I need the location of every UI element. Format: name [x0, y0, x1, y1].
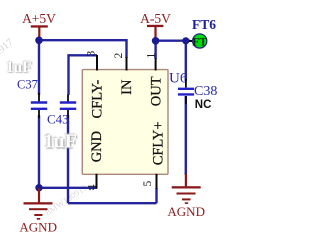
- svg-text:A-5V: A-5V: [140, 11, 171, 26]
- wire smudge junction near pin4: [88, 187, 93, 191]
- wire pin5 rise: [155, 188, 157, 203]
- power symbol A-5V: [140, 11, 171, 40]
- svg-text:C38: C38: [194, 84, 217, 99]
- svg-text:OUT: OUT: [149, 76, 165, 106]
- svg-text:1uF: 1uF: [44, 130, 77, 152]
- svg-text:AGND: AGND: [167, 204, 205, 219]
- pin 2 stub: [126, 57, 128, 71]
- pin 1 stub: [155, 58, 157, 71]
- wire top rail left: [39, 39, 127, 41]
- wire pin1 drop: [154, 41, 156, 59]
- op-amp U6 body: [82, 70, 168, 175]
- svg-text:2: 2: [113, 53, 125, 59]
- svg-text:1: 1: [146, 53, 158, 59]
- svg-text:3: 3: [86, 51, 98, 57]
- svg-text:C43: C43: [47, 112, 69, 127]
- capacitor C38: [178, 79, 217, 104]
- wire pin3 loop horizontal: [69, 54, 98, 56]
- pin 3 stub: [96, 55, 98, 71]
- wire C43 bottom drop: [67, 115, 69, 203]
- wire C38 to ground: [185, 96, 187, 175]
- wire bottom rail to pin5: [68, 202, 157, 204]
- pin 4 stub: [96, 174, 98, 189]
- wire ground node to pin4: [39, 187, 97, 189]
- svg-text:CFLY+: CFLY+: [151, 122, 167, 166]
- svg-text:C37: C37: [17, 78, 38, 92]
- svg-text:IN: IN: [119, 79, 135, 95]
- svg-text:FT6: FT6: [192, 17, 216, 32]
- junction node A+5V: [35, 37, 43, 45]
- pin 5 stub: [156, 174, 158, 189]
- junction node C38/FT: [182, 37, 189, 44]
- wire A-5V rail to FT: [156, 40, 190, 42]
- svg-text:AGND: AGND: [19, 219, 57, 234]
- junction node A-5V: [152, 37, 160, 45]
- value 1uF of C43 (watermark style): [43, 130, 78, 154]
- watermark (decorative): [0, 37, 16, 66]
- wire pin2 drop: [125, 39, 127, 58]
- svg-text:GND: GND: [89, 131, 105, 162]
- svg-text:A+5V: A+5V: [22, 11, 56, 26]
- ground AGND left: [19, 188, 57, 234]
- svg-text:CFLY-: CFLY-: [89, 79, 105, 118]
- node FT6 testpoint: [189, 17, 216, 49]
- capacitor C43: [47, 95, 76, 127]
- wire C43 top drop: [67, 54, 69, 95]
- junction node AGND left: [35, 184, 42, 191]
- svg-text:1uF: 1uF: [6, 59, 32, 76]
- svg-text:5: 5: [142, 181, 154, 187]
- ground AGND right: [167, 174, 205, 219]
- wire C37 bottom lead to ground node: [38, 115, 40, 188]
- svg-text:FT: FT: [192, 36, 207, 48]
- svg-text:NC: NC: [195, 99, 212, 111]
- wire A+5V to C37: [38, 40, 40, 95]
- capacitor C37: [17, 78, 47, 118]
- wire C38 drop: [185, 41, 187, 81]
- value 1uF of C37 (watermark style): [5, 58, 32, 76]
- power symbol A+5V: [22, 11, 56, 40]
